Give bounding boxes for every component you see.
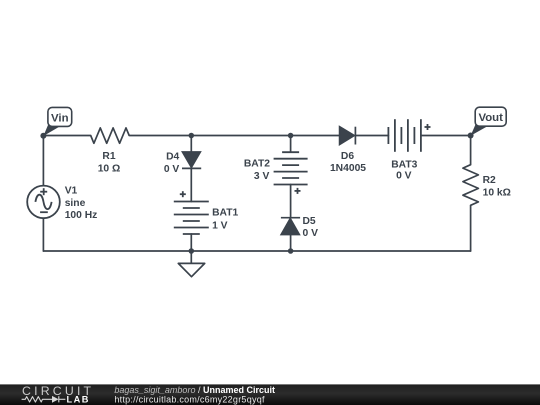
wire D4 to BAT1 (190, 168, 192, 201)
resistor R1 (91, 128, 130, 143)
svg-text:R1: R1 (102, 151, 115, 162)
diode D5 (281, 218, 300, 235)
label D4 value (164, 152, 180, 175)
node Vout flag (468, 107, 507, 138)
label D6 value (330, 151, 366, 174)
svg-text:bagas_sigit_amboro / Unnamed C: bagas_sigit_amboro / Unnamed Circuit (114, 385, 275, 395)
battery BAT3 (388, 119, 430, 152)
label BAT2 value (244, 159, 270, 183)
svg-text:R2: R2 (483, 175, 496, 186)
svg-text:Vin: Vin (51, 112, 69, 124)
footer bar (0, 384, 540, 405)
node Vin flag (40, 107, 71, 138)
logo CIRCUIT LAB (22, 384, 95, 405)
label R2 value (483, 175, 511, 198)
svg-text:1 V: 1 V (212, 220, 228, 231)
svg-text:0 V: 0 V (164, 164, 180, 175)
svg-text:BAT1: BAT1 (212, 208, 238, 219)
wire R2 to bottom bus (470, 205, 472, 251)
junction dot top D4 branch (189, 133, 195, 139)
junction dot bottom D5 branch (288, 248, 294, 254)
battery BAT2 (274, 152, 308, 194)
svg-text:100 Hz: 100 Hz (65, 210, 98, 221)
ground (178, 251, 204, 277)
wire Vout node down to R2 (470, 136, 472, 165)
wire D5 to bottom bus (290, 235, 292, 252)
svg-text:D6: D6 (341, 151, 354, 162)
diode D6 (340, 127, 356, 145)
svg-text:http://circuitlab.com/c6my22gr: http://circuitlab.com/c6my22gr5qyqf (114, 395, 265, 405)
svg-text:BAT2: BAT2 (244, 159, 270, 170)
svg-text:sine: sine (65, 198, 86, 209)
wire left vertical V1 to bottom bus (42, 218, 44, 251)
resistor R2 (463, 165, 479, 206)
footer credit text (114, 385, 275, 405)
wire bottom bus (43, 250, 470, 252)
svg-text:BAT3: BAT3 (391, 159, 417, 170)
svg-text:0 V: 0 V (396, 171, 412, 182)
label V1 value (65, 186, 98, 222)
wire junction to BAT2 (290, 136, 292, 153)
wire BAT1 to bottom bus (190, 234, 192, 251)
svg-text:3 V: 3 V (254, 171, 270, 182)
junction dot bottom ground (189, 248, 195, 254)
wire left vertical Vin to V1 (42, 136, 44, 186)
svg-text:1N4005: 1N4005 (330, 163, 366, 174)
svg-text:0 V: 0 V (303, 228, 319, 239)
svg-text:10 kΩ: 10 kΩ (483, 188, 511, 199)
svg-text:D4: D4 (166, 152, 179, 163)
junction dot top BAT2 branch (288, 133, 294, 139)
label BAT1 value (212, 208, 238, 232)
svg-text:Vout: Vout (478, 112, 503, 124)
svg-text:LAB: LAB (67, 395, 90, 405)
wire junction to D4 (190, 136, 192, 153)
diode D4 (182, 152, 201, 168)
label D5 value (303, 216, 319, 239)
label R1 value (98, 151, 121, 174)
wire BAT2 to D5 (290, 185, 292, 218)
svg-text:D5: D5 (303, 216, 316, 227)
battery BAT1 (174, 191, 209, 234)
wire top from R1 to D6 (129, 135, 339, 137)
svg-text:10 Ω: 10 Ω (98, 163, 121, 174)
wire top from D6 to BAT3 (355, 135, 388, 137)
wire top from BAT3 to Vout node (421, 135, 471, 137)
wire top from Vin node to R1 (43, 135, 90, 137)
label BAT3 value (391, 159, 417, 181)
voltage source V1 (27, 186, 60, 219)
svg-text:V1: V1 (65, 186, 78, 197)
